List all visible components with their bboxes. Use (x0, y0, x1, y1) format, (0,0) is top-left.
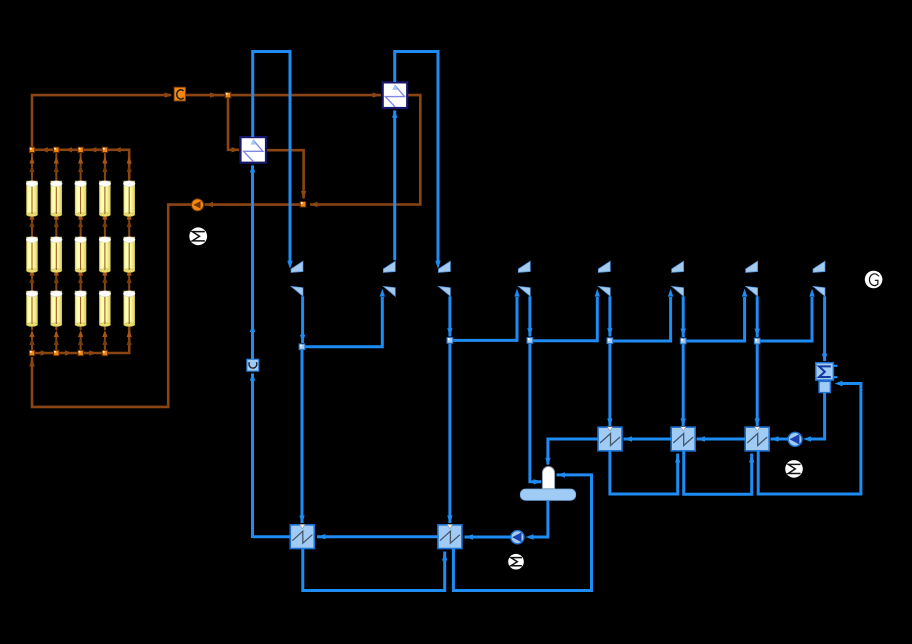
wire FWH2 to FWH1 (624, 438, 672, 441)
node field bottom header 4 (102, 350, 107, 355)
HTF circulation pump P3 (orange) (192, 199, 204, 211)
steam turbine stage T3 (438, 261, 450, 296)
wire T6 exhaust to node N5 (682, 296, 685, 337)
solar collector row 2 column 1 (26, 237, 38, 273)
condenser hotwell box (819, 381, 830, 392)
node N6 extraction splitter (754, 338, 760, 344)
node field bottom header 2 (54, 350, 59, 355)
feedwater storage tank (520, 489, 575, 500)
wire hotwell to condensate pump P1 (811, 393, 825, 439)
wire node N3 to turbine T5 inlet riser (533, 297, 597, 341)
wire extraction node N3 to deaerator (530, 344, 541, 482)
wire HX2 top to turbine T3 inlet (395, 52, 438, 263)
wire FWH-B drain to deaerator (453, 475, 591, 591)
steam turbine stage T2 (383, 261, 395, 296)
solar collector row 1 column 4 (99, 181, 111, 217)
steam turbine stage T7 (746, 261, 758, 296)
feed pump P2 (511, 531, 524, 544)
wire pump P2 to FWH-B (465, 536, 511, 539)
wire HX2 HTF outlet to node H2 (310, 95, 420, 204)
wire FWH3 drain to condenser hotwell (758, 384, 861, 495)
wire FWH2 drain cascade to FWH3 (684, 451, 752, 494)
solar collector row 1 column 3 (75, 181, 87, 217)
wire extraction node N6 to FWH3 (756, 344, 759, 426)
wire extraction node N2 to FWH-B (448, 344, 451, 523)
wire node H1 to superheater HX2 (231, 94, 381, 97)
collector control box C (174, 87, 185, 101)
node N4 extraction splitter (607, 338, 613, 344)
node field top header 2 (54, 147, 59, 152)
condensate pump P1 (788, 432, 802, 446)
steam turbine stage T5 (598, 261, 610, 296)
wire T2 exhaust up to superheater HX2 (393, 111, 396, 261)
wire pump P1 to FWH3 (771, 438, 789, 441)
wire extraction node N1 to FWH-A (301, 350, 304, 523)
solar collector row 3 column 4 (99, 291, 111, 327)
wire extraction node N5 to FWH2 (682, 344, 685, 426)
wire FWH1 to deaerator dome (548, 439, 598, 465)
wire FWH-B to FWH-A (317, 535, 438, 538)
heat exchanger HX2 (reheater, white) (383, 82, 408, 108)
node H1 hot HTF splitter (225, 92, 231, 98)
wire collector column 3 connections (78, 152, 83, 350)
wire T4 exhaust to node N3 (528, 296, 531, 336)
solar collector row 2 column 5 (123, 237, 135, 273)
sigma measurement M3 (508, 554, 524, 570)
wire node N4 to turbine T6 inlet riser (613, 297, 671, 341)
wire T5 exhaust to node N4 (608, 296, 611, 336)
wire feedwater FWH-A outlet up to valve box (251, 374, 254, 539)
wire collector column 4 connections (102, 152, 107, 350)
node N3 extraction splitter (527, 338, 533, 344)
solar collector row 1 column 2 (50, 181, 62, 217)
sigma measurement M2 (785, 460, 803, 478)
node N1 extraction splitter (299, 344, 305, 350)
wire top collection header of collector field (35, 150, 129, 179)
wire node H1 down to reheater HX1 (228, 98, 239, 150)
wire cold HTF return: pump to field inlet (32, 205, 191, 407)
solar collector row 3 column 2 (50, 291, 62, 327)
wire C box to node H1 (185, 94, 224, 97)
steam turbine stage T6 (672, 261, 684, 296)
solar collector row 2 column 2 (50, 237, 62, 273)
sigma measurement M1 (189, 227, 207, 245)
node field top header 3 (78, 147, 83, 152)
wire FWH-A drain cascade to FWH-B (303, 549, 445, 591)
wire collector column 2 connections (54, 152, 59, 350)
node H2 cold HTF mixer (300, 202, 306, 208)
wire valve box to reheater HX1 bottom (251, 166, 254, 360)
solar collector row 2 column 4 (99, 237, 111, 273)
feedwater heater FWH-A (290, 524, 314, 548)
wire node N2 to turbine T4 inlet riser (453, 297, 517, 340)
node N5 extraction splitter (680, 338, 686, 344)
solar collector row 2 column 3 (75, 237, 87, 273)
wire bottom distribution header of collector field (31, 350, 34, 353)
solar collector row 1 column 1 (26, 181, 38, 217)
steam turbine stage T8 (813, 261, 825, 296)
feedwater heater FWH-B (438, 524, 462, 548)
wire FWH1 drain cascade to FWH2 (610, 451, 678, 494)
wire HX1 HTF outlet to node H2 (266, 150, 304, 198)
wire node N5 to turbine T7 inlet riser (686, 297, 744, 341)
heat exchanger HX1 (steam generator, white) (241, 137, 267, 163)
valve/control box V1 on feedwater line (247, 359, 259, 371)
wire T1 exhaust to node N1 (301, 296, 304, 343)
steam turbine stage T1 (291, 261, 303, 296)
wire collector column 5 connections (127, 152, 132, 350)
node N2 extraction splitter (447, 338, 453, 344)
wire T7 exhaust to node N6 (756, 296, 759, 337)
wire extraction node N4 to FWH1 (608, 344, 611, 426)
wire FWH3 to FWH2 (697, 438, 746, 441)
steam turbine stage T4 (518, 261, 530, 296)
deaerator dome (542, 467, 554, 489)
wire node N1 to turbine T2 inlet riser (305, 297, 382, 347)
wire tank to feed pump P2 (533, 500, 548, 537)
solar collector row 1 column 5 (123, 181, 135, 217)
solar collector row 3 column 1 (26, 291, 38, 327)
wire node N6 to turbine T8 inlet riser (760, 297, 812, 341)
feedwater heater FWH3 (745, 427, 769, 451)
wire collector column 1 connections (29, 152, 34, 350)
wire node H2 to HTF pump (205, 203, 300, 206)
solar collector row 3 column 3 (75, 291, 87, 327)
solar collector row 3 column 5 (123, 291, 135, 327)
wire FWH-A outlet to riser (253, 535, 291, 538)
feedwater heater FWH1 (598, 427, 622, 451)
wire HX1 top to turbine T1 inlet (253, 52, 290, 263)
feedwater heater FWH2 (671, 427, 695, 451)
wire T8 exhaust down to condenser (823, 296, 826, 361)
node field bottom header 1 (29, 350, 34, 355)
node field top header 1 (29, 147, 34, 152)
node field top header 4 (102, 147, 107, 152)
generator G (865, 271, 883, 289)
wire hot HTF header: field riser to collector control box (32, 95, 171, 147)
node field bottom header 3 (78, 350, 83, 355)
wire T3 exhaust to node N2 (448, 296, 451, 336)
condenser K1 (sigma box) (816, 363, 838, 380)
